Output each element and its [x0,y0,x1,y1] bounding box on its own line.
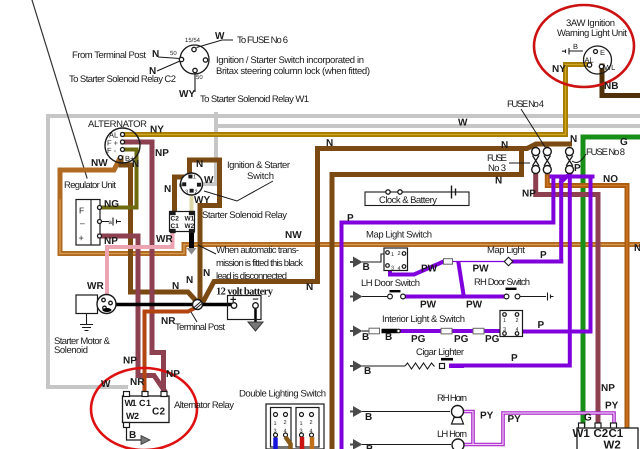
svg-text:N: N [501,140,508,151]
svg-text:Double Lighting Switch: Double Lighting Switch [239,389,326,400]
svg-text:C1: C1 [171,223,180,230]
svg-text:P: P [511,353,518,364]
svg-text:PW: PW [420,300,437,311]
svg-text:P: P [540,250,547,261]
svg-text:4: 4 [516,327,519,333]
svg-text:N: N [152,49,159,60]
svg-text:B: B [366,444,373,449]
svg-text:PG: PG [485,334,500,345]
svg-text:Map Light Switch: Map Light Switch [366,230,432,241]
svg-text:LH Horn: LH Horn [437,429,467,440]
svg-text:N: N [172,281,179,292]
svg-text:FUSE No 8: FUSE No 8 [586,147,625,158]
svg-text:3: 3 [503,327,506,333]
svg-text:W: W [215,31,225,42]
svg-text:Cigar Lighter: Cigar Lighter [416,347,464,358]
svg-text:P: P [574,163,581,174]
svg-text:RH Door Switch: RH Door Switch [474,277,530,288]
svg-text:Ignition / Starter Switch inco: Ignition / Starter Switch incorporated i… [216,55,364,66]
svg-text:When automatic trans-: When automatic trans- [216,245,299,256]
svg-text:N: N [306,282,313,293]
svg-text:WL: WL [604,63,615,72]
svg-text:1: 1 [503,318,506,324]
svg-text:W2: W2 [126,411,139,421]
svg-text:B: B [365,412,372,423]
svg-text:C2: C2 [152,407,165,418]
svg-text:P: P [347,213,354,224]
svg-text:Starter Solenoid Relay: Starter Solenoid Relay [202,210,287,221]
svg-text:NR: NR [130,377,145,388]
svg-text:B: B [385,332,392,343]
svg-text:2: 2 [284,420,287,426]
svg-text:NP: NP [123,356,137,367]
svg-text:NP: NP [166,369,180,380]
svg-text:Regulator Unit: Regulator Unit [64,180,116,191]
svg-text:NG: NG [104,199,119,210]
svg-text:W1: W1 [185,216,195,223]
svg-text:NW: NW [91,158,108,169]
svg-text:W: W [101,379,111,390]
svg-text:Map Light: Map Light [487,245,525,256]
svg-text:N: N [149,66,156,77]
svg-text:1: 1 [193,175,196,181]
svg-text:3: 3 [274,429,277,435]
svg-text:LH Door Switch: LH Door Switch [361,278,420,289]
svg-text:W: W [458,118,468,129]
svg-text:Clock & Battery: Clock & Battery [379,195,437,206]
svg-text:C1: C1 [139,398,151,408]
svg-text:4: 4 [284,429,287,435]
svg-text:NW: NW [285,230,302,241]
svg-text:WR: WR [156,234,173,245]
svg-text:PW: PW [421,264,438,275]
svg-text:NP: NP [522,189,536,200]
svg-text:C1: C1 [609,428,624,440]
svg-text:2: 2 [310,420,313,426]
svg-text:Terminal Post: Terminal Post [175,322,225,333]
svg-text:PG: PG [411,334,426,345]
svg-text:NR: NR [161,316,176,327]
svg-text:No 3: No 3 [488,163,506,174]
svg-text:Switch: Switch [247,171,274,182]
svg-text:50: 50 [170,50,177,57]
svg-text:Warning Light Unit: Warning Light Unit [557,28,627,39]
svg-text:W: W [204,175,214,186]
svg-text:B+: B+ [125,154,135,163]
svg-text:3: 3 [185,190,188,196]
svg-text:B: B [129,430,136,441]
svg-text:NO: NO [603,174,618,185]
svg-text:To Starter Solenoid Relay W1: To Starter Solenoid Relay W1 [200,94,309,105]
svg-text:AL: AL [585,56,594,65]
svg-text:NB: NB [604,81,618,92]
svg-text:N: N [164,184,171,195]
svg-text:mission is fitted this black: mission is fitted this black [216,258,303,269]
svg-text:N: N [570,134,577,145]
svg-text:W2: W2 [185,223,195,230]
svg-text:WR: WR [87,281,104,292]
svg-text:NP: NP [104,236,118,247]
svg-text:12 volt battery: 12 volt battery [216,287,274,298]
svg-text:W1: W1 [573,428,591,440]
svg-text:1: 1 [391,252,394,258]
svg-text:RH Horn: RH Horn [437,393,467,404]
svg-text:NY: NY [150,125,164,136]
svg-text:NP: NP [155,148,169,159]
svg-text:N: N [634,243,640,254]
svg-text:F: F [79,206,84,216]
svg-text:PW: PW [473,264,490,275]
svg-text:+: + [79,233,84,243]
svg-text:F -: F - [107,146,117,155]
svg-text:W1: W1 [125,398,137,408]
svg-text:PG: PG [454,334,469,345]
svg-text:N: N [196,159,203,170]
svg-text:PW: PW [466,300,483,311]
svg-text:N: N [495,176,502,187]
svg-text:To FUSE No 6: To FUSE No 6 [237,35,288,46]
svg-text:1: 1 [300,421,303,427]
svg-text:PY: PY [605,401,619,412]
svg-text:Alternator Relay: Alternator Relay [174,400,234,411]
svg-text:N: N [326,138,333,149]
svg-text:G: G [584,413,592,424]
svg-text:50: 50 [196,74,203,81]
svg-text:Ignition & Starter: Ignition & Starter [227,160,290,171]
svg-text:E: E [600,48,605,57]
svg-text:0: 0 [179,183,182,189]
svg-text:From Terminal Post: From Terminal Post [72,50,146,61]
svg-text:C2: C2 [594,428,609,440]
svg-text:G: G [620,137,628,148]
svg-text:+: + [230,294,236,306]
svg-text:lead is disconnected: lead is disconnected [216,271,287,282]
svg-text:4: 4 [310,429,313,435]
svg-text:FUSE No 4: FUSE No 4 [507,99,544,110]
svg-text:–: – [253,293,259,305]
svg-text:P: P [538,320,545,331]
svg-text:3: 3 [391,266,394,272]
svg-text:To Starter Solenoid Relay C2: To Starter Solenoid Relay C2 [69,74,176,85]
svg-text:4: 4 [398,266,401,272]
svg-text:ALTERNATOR: ALTERNATOR [88,119,147,130]
svg-text:–: – [80,218,85,228]
svg-text:B: B [362,332,369,343]
svg-text:N: N [186,275,193,286]
svg-text:NP: NP [601,383,615,394]
svg-text:N: N [203,268,210,279]
svg-text:B: B [363,262,370,273]
svg-text:WY: WY [179,89,195,100]
svg-text:WY: WY [194,195,210,206]
svg-text:C2: C2 [171,216,180,223]
svg-text:3: 3 [300,429,303,435]
svg-text:NY: NY [552,64,566,75]
svg-text:Solenoid: Solenoid [54,345,88,356]
svg-text:W2: W2 [604,440,621,449]
svg-text:PY: PY [480,411,494,422]
svg-text:Interior Light & Switch: Interior Light & Switch [382,314,465,325]
svg-text:1: 1 [274,421,277,427]
svg-text:2: 2 [516,318,519,324]
svg-text:PY: PY [508,414,522,425]
svg-text:2: 2 [398,251,401,257]
svg-text:B: B [573,42,578,51]
svg-text:Britax steering column lock (w: Britax steering column lock (when fitted… [216,66,370,77]
svg-text:2: 2 [195,190,198,196]
svg-text:15/54: 15/54 [185,37,201,44]
svg-text:B: B [364,366,371,377]
